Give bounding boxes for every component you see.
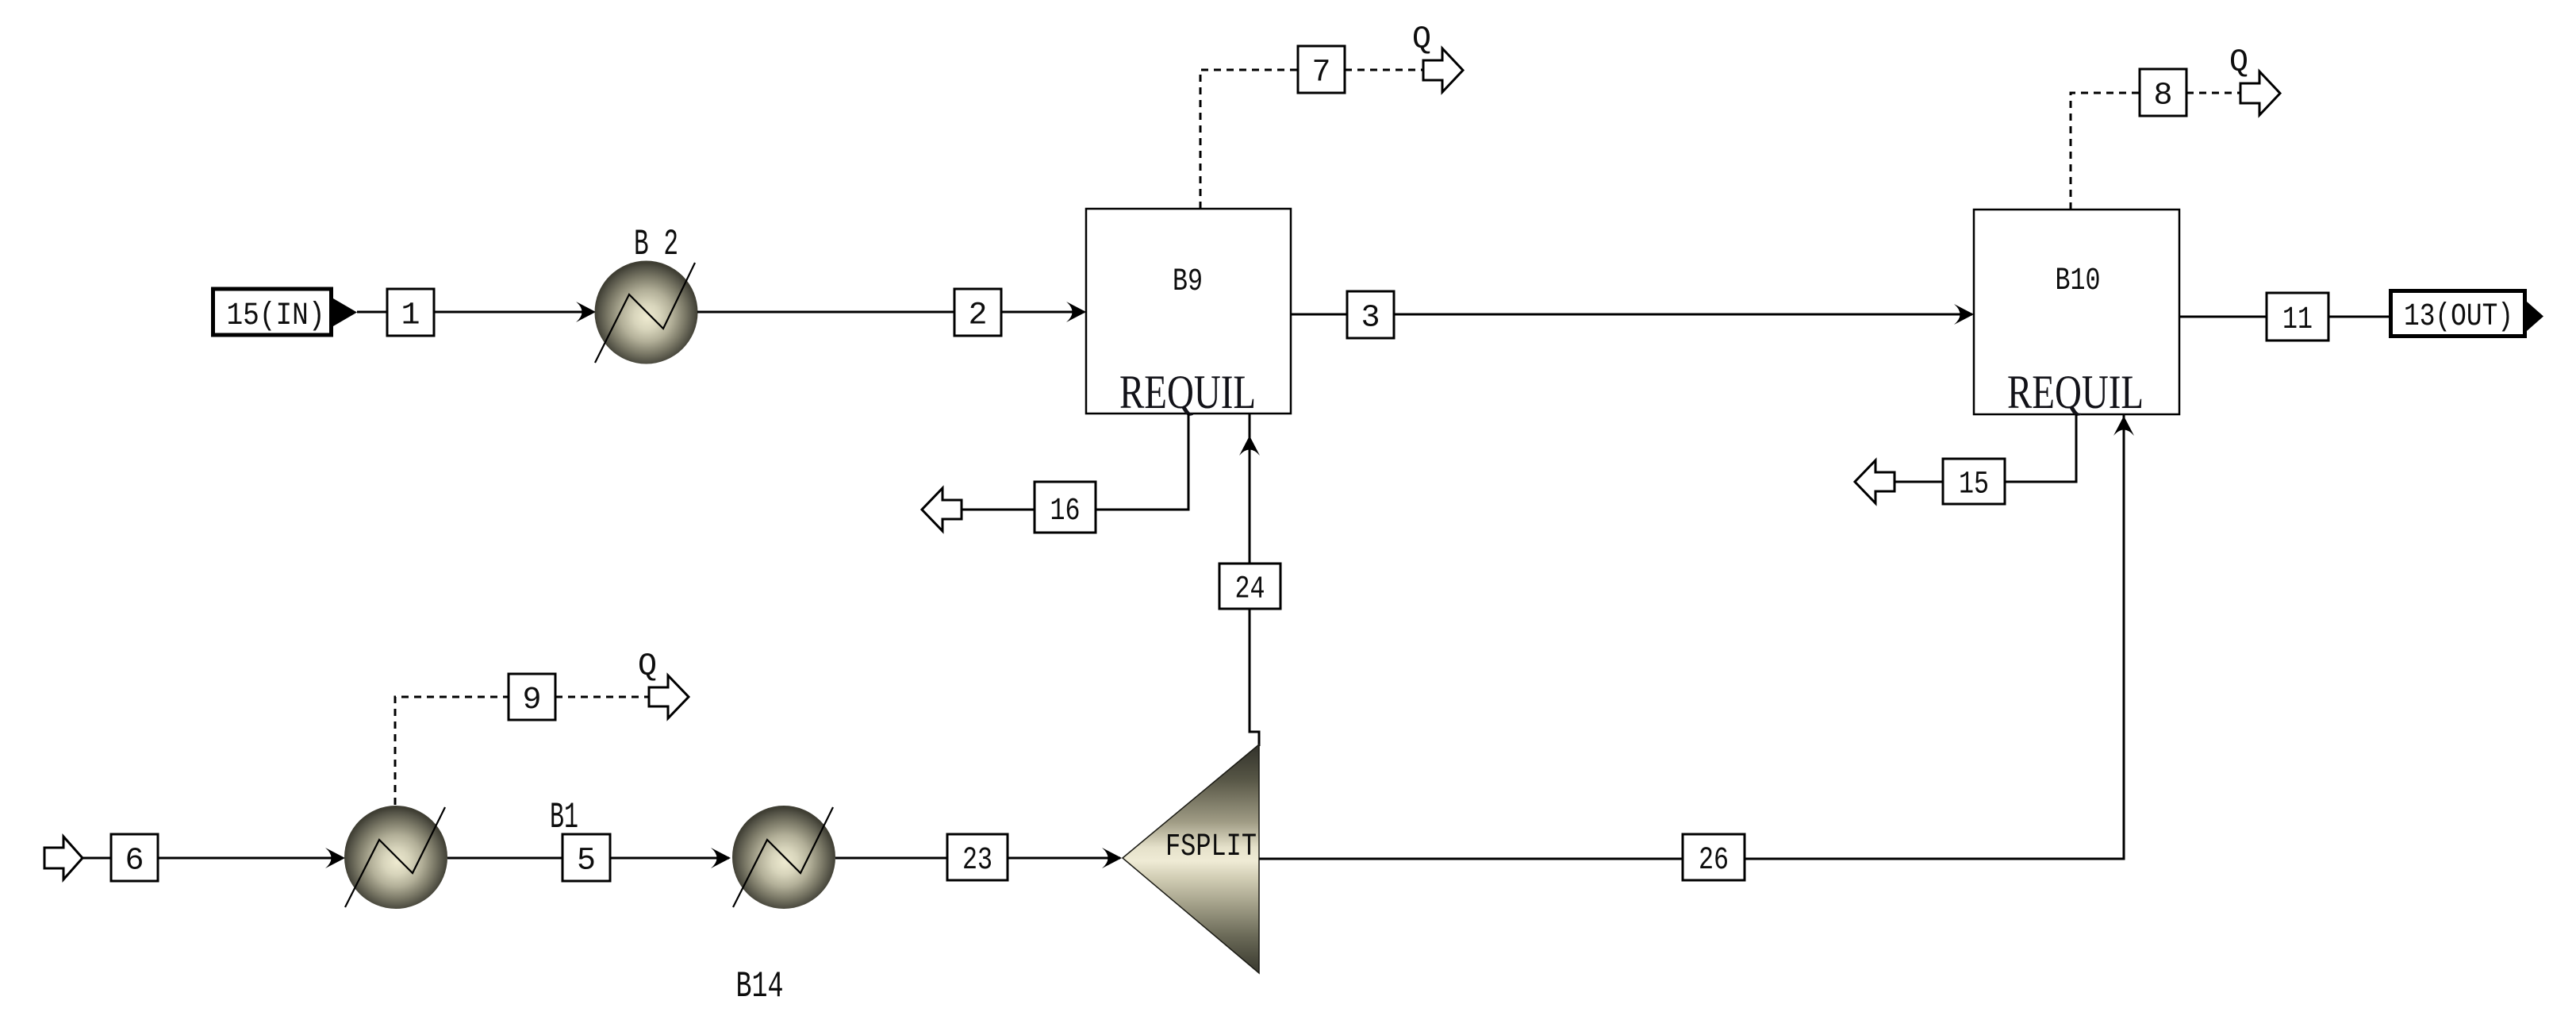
heater B2 — [595, 224, 698, 364]
heat stream label 8 — [2140, 69, 2186, 116]
reactor block B9 REQUIL — [1086, 209, 1291, 418]
splitter FSPLIT — [1123, 745, 1259, 973]
wire box 5 to heater B14 — [610, 857, 729, 860]
wire box 15 to left outlet arrow — [1895, 481, 1943, 483]
arrowhead into B2 — [576, 302, 596, 322]
svg-text:Q: Q — [638, 649, 657, 685]
wire B9 to box 3 — [1291, 314, 1347, 316]
wire box 11 to 13(OUT) — [2328, 316, 2389, 318]
svg-text:11: 11 — [2282, 302, 2313, 338]
dashed wire box 9 to Q arrow — [555, 696, 649, 698]
svg-text:B9: B9 — [1173, 264, 1203, 300]
wire stream 26 FSPLIT to B10 — [1259, 414, 2124, 859]
stream label 1 — [387, 289, 434, 336]
wire B2 to box 2 — [697, 311, 954, 314]
svg-text:1: 1 — [401, 298, 420, 334]
heat stream label 15 — [1943, 459, 2005, 504]
left outlet arrow (16) — [922, 488, 962, 531]
stream label 5 — [562, 834, 610, 881]
reactor block B10 REQUIL — [1974, 210, 2179, 418]
heater B14 — [732, 806, 835, 1007]
heat stream label 7 — [1298, 46, 1345, 93]
dashed heat wire B9 to box 7 — [1200, 70, 1298, 209]
dashed heat wire B1 to box 9 — [395, 697, 509, 805]
svg-text:2: 2 — [968, 298, 987, 334]
wire box 23 to FSPLIT — [1008, 857, 1120, 860]
heater B1 — [344, 797, 578, 909]
arrowhead into B10 — [1954, 304, 1974, 325]
wire B9 bottom to box 16 — [1096, 414, 1188, 510]
wire 15(IN) to box 1 — [357, 311, 387, 314]
svg-text:15: 15 — [1959, 467, 1989, 503]
arrowhead stream 24 into B9 — [1239, 436, 1260, 456]
svg-text:B10: B10 — [2056, 264, 2101, 299]
arrowhead into B14 — [711, 848, 731, 868]
svg-text:REQUIL: REQUIL — [1119, 366, 1256, 418]
heat stream label 16 — [1035, 482, 1096, 533]
svg-text:8: 8 — [2153, 79, 2172, 114]
Q outlet arrow (B9) — [1412, 22, 1463, 92]
wire B10 to box 11 — [2179, 316, 2267, 318]
svg-text:Q: Q — [2229, 45, 2248, 81]
svg-text:B 2: B 2 — [634, 224, 678, 265]
Q outlet arrow (B10) — [2229, 45, 2280, 115]
dashed wire box 7 to Q arrow — [1345, 69, 1423, 71]
wire box 1 to heater B2 — [434, 311, 593, 314]
stream label 11 — [2267, 293, 2328, 341]
wire box 3 to B10 — [1394, 314, 1972, 316]
arrowhead stream 26 into B10 — [2113, 416, 2134, 436]
arrowhead into B9 — [1066, 302, 1086, 322]
svg-text:26: 26 — [1699, 843, 1729, 879]
Q outlet arrow (B1) — [638, 649, 689, 718]
svg-text:B14: B14 — [736, 966, 784, 1007]
dashed heat wire B10 to box 8 — [2071, 93, 2140, 210]
svg-text:16: 16 — [1050, 494, 1081, 529]
arrowhead into FSPLIT — [1102, 848, 1122, 868]
stream label 23 — [947, 834, 1008, 880]
stream label 26 — [1683, 834, 1745, 880]
wire inlet to box 6 — [83, 857, 111, 860]
wire box 6 to heater B1 — [158, 857, 343, 860]
svg-text:9: 9 — [522, 683, 541, 718]
svg-text:FSPLIT: FSPLIT — [1165, 829, 1257, 865]
svg-text:15(IN): 15(IN) — [227, 298, 325, 334]
arrowhead into B1 — [325, 848, 345, 868]
stream label 3 — [1347, 291, 1394, 338]
stream label 6 — [111, 834, 158, 881]
stream label 24 — [1219, 564, 1280, 609]
wire B1 to box 5 — [447, 857, 562, 860]
heat stream label 9 — [509, 674, 555, 720]
wire box 16 to left outlet arrow — [962, 509, 1035, 511]
svg-text:24: 24 — [1235, 572, 1265, 608]
svg-text:23: 23 — [962, 843, 992, 879]
svg-text:REQUIL: REQUIL — [2007, 366, 2144, 418]
wire B14 to box 23 — [835, 857, 947, 860]
svg-text:Q: Q — [1412, 22, 1431, 58]
product block 13(OUT) — [2391, 291, 2544, 337]
svg-text:3: 3 — [1361, 301, 1380, 337]
wire stream 24 FSPLIT to B9 — [1250, 414, 1259, 746]
dashed wire box 8 to Q arrow — [2186, 92, 2240, 94]
wire B10 bottom to box 15 — [2005, 414, 2076, 482]
left outlet arrow (15) — [1855, 460, 1895, 503]
feed block 15(IN) — [213, 289, 358, 335]
wire box 2 to B9 — [1001, 311, 1085, 314]
svg-text:6: 6 — [125, 844, 144, 879]
svg-text:13(OUT): 13(OUT) — [2404, 299, 2513, 335]
svg-text:5: 5 — [577, 844, 596, 879]
stream label 2 — [954, 289, 1001, 336]
svg-text:7: 7 — [1311, 56, 1330, 91]
feed inlet arrow (6) — [44, 837, 83, 879]
svg-text:B1: B1 — [550, 797, 578, 838]
